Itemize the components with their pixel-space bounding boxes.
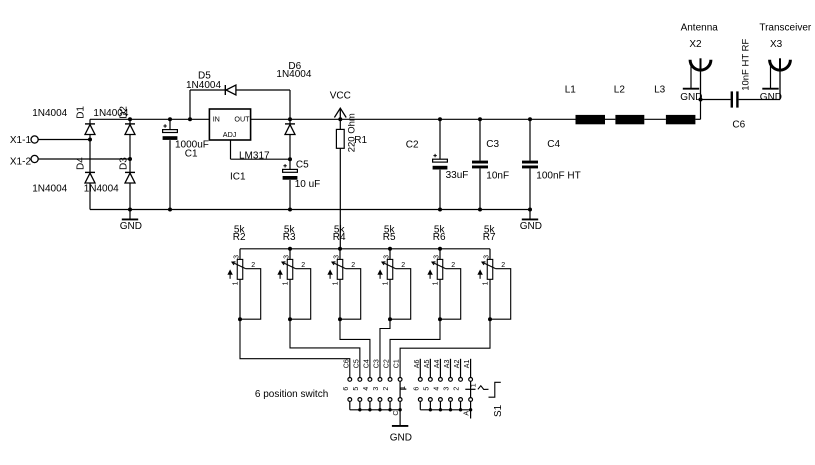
node: C5 bottom <box>288 208 292 212</box>
svg-text:X2: X2 <box>689 39 702 50</box>
svg-text:220 Ohm: 220 Ohm <box>347 113 358 152</box>
svg-text:C6: C6 <box>343 359 350 368</box>
switch contact A6 <box>414 359 423 410</box>
node: C1 bottom <box>168 208 172 212</box>
wire bridge right column <box>129 119 131 209</box>
svg-text:VCC: VCC <box>330 90 351 101</box>
node: X1-1 junction <box>88 138 92 142</box>
potentiometer R3 5k <box>278 225 311 320</box>
svg-text:1: 1 <box>483 281 490 285</box>
connector X1-2 <box>31 155 38 162</box>
wire X3 pin down <box>779 70 781 99</box>
svg-text:C1: C1 <box>394 359 401 368</box>
ground symbol below switch <box>392 425 408 427</box>
svg-text:1: 1 <box>333 281 340 285</box>
svg-text:IC1: IC1 <box>230 171 246 182</box>
svg-text:R4: R4 <box>333 232 346 243</box>
inductor L1 <box>576 115 606 124</box>
svg-text:IN: IN <box>213 115 220 124</box>
svg-text:C6: C6 <box>732 120 745 131</box>
svg-text:3: 3 <box>483 255 490 259</box>
capacitor C6 10nF HT RF <box>731 91 733 107</box>
svg-text:1: 1 <box>383 281 390 285</box>
node: R2 pin1/wiper junction <box>238 317 242 321</box>
diode D3 <box>125 172 135 183</box>
node: ADJ junction <box>288 157 292 161</box>
svg-text:A2: A2 <box>454 360 461 369</box>
svg-text:R2: R2 <box>233 232 246 243</box>
svg-text:R1: R1 <box>354 135 367 146</box>
ground symbol below bridge <box>129 210 131 220</box>
wire antenna node to C6 <box>701 99 731 101</box>
inductor L2 <box>615 115 644 124</box>
svg-text:4: 4 <box>363 387 370 391</box>
node: R3 pin1/wiper junction <box>288 317 292 321</box>
ground symbol at X3 <box>770 65 772 89</box>
svg-text:1: 1 <box>283 281 290 285</box>
ground symbol below C4 <box>529 210 531 220</box>
svg-text:C1: C1 <box>185 148 198 159</box>
inductor L3 <box>666 115 696 124</box>
svg-text:L2: L2 <box>614 84 626 95</box>
svg-text:2: 2 <box>351 262 355 269</box>
wire X2 pin down <box>700 70 702 99</box>
wire C6 to X3 <box>739 99 780 101</box>
switch contact A4 <box>434 359 443 410</box>
svg-text:6: 6 <box>414 387 421 391</box>
diode D4 <box>85 172 95 183</box>
svg-text:C3: C3 <box>374 359 381 368</box>
svg-text:3: 3 <box>433 255 440 259</box>
svg-text:6 position switch: 6 position switch <box>255 389 328 400</box>
svg-text:6: 6 <box>343 387 350 391</box>
node: bridge top junction <box>128 117 132 121</box>
svg-text:R7: R7 <box>483 232 496 243</box>
svg-text:Antenna: Antenna <box>681 22 719 33</box>
wire switch A common bus <box>420 409 470 411</box>
svg-text:OUT: OUT <box>234 115 250 124</box>
svg-text:2: 2 <box>501 262 505 269</box>
svg-text:X3: X3 <box>770 39 783 50</box>
wire X1-1 to bridge <box>38 139 90 141</box>
wire R2 to switch contact <box>240 319 350 377</box>
svg-text:X1-1: X1-1 <box>10 135 32 146</box>
node: VCC junction <box>338 117 342 121</box>
svg-text:2: 2 <box>451 262 455 269</box>
antenna connector X2 <box>690 60 711 70</box>
svg-text:1: 1 <box>400 386 407 390</box>
switch contact C4 <box>363 359 372 410</box>
svg-text:R6: R6 <box>433 232 446 243</box>
wire R5 to switch contact <box>380 319 390 377</box>
switch contact A5 <box>424 359 433 410</box>
switch contact C1 <box>394 359 402 410</box>
capacitor C2 33uF <box>439 119 441 159</box>
wire bottom rail <box>90 209 530 211</box>
diode D2 <box>125 124 135 135</box>
antenna connector X3 <box>770 60 791 70</box>
svg-text:2: 2 <box>301 262 305 269</box>
potentiometer R4 5k <box>328 225 361 320</box>
switch wiper link C bank position 1 <box>399 381 401 397</box>
switch contact A1 <box>464 359 472 410</box>
node: R4 pin1/wiper junction <box>338 317 342 321</box>
node: X1-2 junction <box>128 157 132 161</box>
svg-text:ADJ: ADJ <box>223 130 237 139</box>
wire R7 to switch contact <box>400 319 490 377</box>
wire D5 branch left leg <box>189 90 191 119</box>
potentiometer R5 5k <box>378 225 411 320</box>
wire pot supply bus <box>240 248 490 250</box>
switch contact C3 <box>373 359 382 410</box>
svg-text:3: 3 <box>333 255 340 259</box>
svg-text:C4: C4 <box>547 139 560 150</box>
node: pot bus junctions <box>288 247 292 251</box>
svg-text:D1: D1 <box>75 106 86 119</box>
svg-text:1N4004: 1N4004 <box>32 184 67 195</box>
svg-text:R5: R5 <box>383 232 396 243</box>
op-amp/regulator IC1 LM317 box <box>209 109 250 140</box>
svg-text:GND: GND <box>120 221 142 232</box>
switch contact C2 <box>383 359 392 410</box>
svg-text:GND: GND <box>520 221 542 232</box>
svg-text:GND: GND <box>390 432 412 443</box>
svg-text:3: 3 <box>444 387 451 391</box>
switch contact C6 <box>343 359 352 410</box>
svg-text:1N4004: 1N4004 <box>186 80 221 91</box>
potentiometer R6 5k <box>428 225 461 320</box>
wire ADJ pin <box>230 140 232 159</box>
svg-text:1: 1 <box>433 281 440 285</box>
wire D5 branch right leg <box>236 89 290 91</box>
svg-text:A1: A1 <box>464 360 471 369</box>
capacitor C5 10uF <box>289 159 291 169</box>
wire switch C common bus <box>350 409 400 411</box>
svg-text:3: 3 <box>383 255 390 259</box>
svg-text:A6: A6 <box>414 360 421 369</box>
wire L2-L3 <box>644 118 666 120</box>
svg-text:C5: C5 <box>353 359 360 368</box>
svg-text:1: 1 <box>470 383 477 387</box>
diode D5 <box>225 85 236 95</box>
svg-text:A4: A4 <box>434 360 441 369</box>
svg-text:1N4004: 1N4004 <box>84 184 119 195</box>
diode D6 <box>289 119 291 159</box>
svg-text:A5: A5 <box>424 360 431 369</box>
svg-text:GND: GND <box>680 92 702 103</box>
switch contact A2 <box>454 359 463 410</box>
svg-text:1N4004: 1N4004 <box>32 108 67 119</box>
wire R6 to switch contact <box>390 319 440 377</box>
ground symbol at X2 <box>690 65 692 89</box>
node: antenna junction <box>699 98 703 102</box>
svg-text:GND: GND <box>760 92 782 103</box>
node: bridge bottom junction <box>128 208 132 212</box>
node: C1 top <box>168 117 172 121</box>
wire OUT pin rail <box>251 118 576 120</box>
svg-text:A: A <box>463 411 470 416</box>
wire R4 to switch contact <box>340 319 370 377</box>
svg-text:2: 2 <box>383 387 390 391</box>
svg-text:10nF HT RF: 10nF HT RF <box>741 39 752 91</box>
switch S1 actuator linkage <box>478 382 504 417</box>
svg-text:10nF: 10nF <box>486 170 509 181</box>
switch wiper link A bank position 1 <box>470 381 472 397</box>
wire bridge left column <box>89 119 91 209</box>
wire L3 to antenna node <box>695 118 700 120</box>
svg-text:A3: A3 <box>444 360 451 369</box>
svg-text:3: 3 <box>233 255 240 259</box>
svg-text:D4: D4 <box>75 157 86 170</box>
node: D6 top junction <box>288 117 292 121</box>
diode D1 <box>85 124 95 135</box>
node: R6 pin1/wiper junction <box>438 317 442 321</box>
wire R3 to switch contact <box>290 319 360 377</box>
capacitor C3 10nF <box>479 119 481 160</box>
capacitor C1 1000uF <box>169 119 171 129</box>
svg-text:L3: L3 <box>654 84 666 95</box>
wire X1-2 to bridge <box>38 158 130 160</box>
node: D5 left junction <box>188 117 192 121</box>
node: R5 pin1/wiper junction <box>388 317 392 321</box>
svg-text:2: 2 <box>251 262 255 269</box>
svg-text:5: 5 <box>353 387 360 391</box>
svg-text:3: 3 <box>373 387 380 391</box>
svg-text:C3: C3 <box>486 139 499 150</box>
capacitor C4 100nF HT <box>529 119 531 160</box>
switch contact A3 <box>444 359 453 410</box>
switch contact C5 <box>353 359 362 410</box>
svg-text:1N4004: 1N4004 <box>93 108 128 119</box>
svg-text:C: C <box>393 411 400 416</box>
svg-text:Transceiver: Transceiver <box>759 22 812 33</box>
svg-text:2: 2 <box>454 387 461 391</box>
svg-text:100nF HT: 100nF HT <box>536 170 580 181</box>
potentiometer R2 5k <box>228 225 261 320</box>
svg-text:D3: D3 <box>119 157 130 170</box>
svg-text:4: 4 <box>434 387 441 391</box>
svg-text:L1: L1 <box>565 84 577 95</box>
connector X1-1 <box>31 136 38 143</box>
resistor R1 220 Ohm <box>339 119 341 129</box>
svg-text:1N4004: 1N4004 <box>276 69 311 80</box>
svg-text:1: 1 <box>233 281 240 285</box>
svg-text:X1-2: X1-2 <box>10 157 32 168</box>
svg-text:C2: C2 <box>384 359 391 368</box>
wire top rail left section <box>90 118 209 120</box>
potentiometer R7 5k <box>478 225 511 320</box>
svg-text:10 uF: 10 uF <box>295 179 321 190</box>
svg-text:C4: C4 <box>364 359 371 368</box>
svg-text:33uF: 33uF <box>446 170 469 181</box>
svg-text:S1: S1 <box>493 404 504 417</box>
svg-text:3: 3 <box>283 255 290 259</box>
svg-text:2: 2 <box>401 262 405 269</box>
wire L1-L2 <box>605 118 615 120</box>
node: R7 pin1/wiper junction <box>488 317 492 321</box>
svg-text:R3: R3 <box>283 232 296 243</box>
svg-text:C5: C5 <box>296 159 309 170</box>
svg-text:C2: C2 <box>406 140 419 151</box>
svg-text:5: 5 <box>424 387 431 391</box>
